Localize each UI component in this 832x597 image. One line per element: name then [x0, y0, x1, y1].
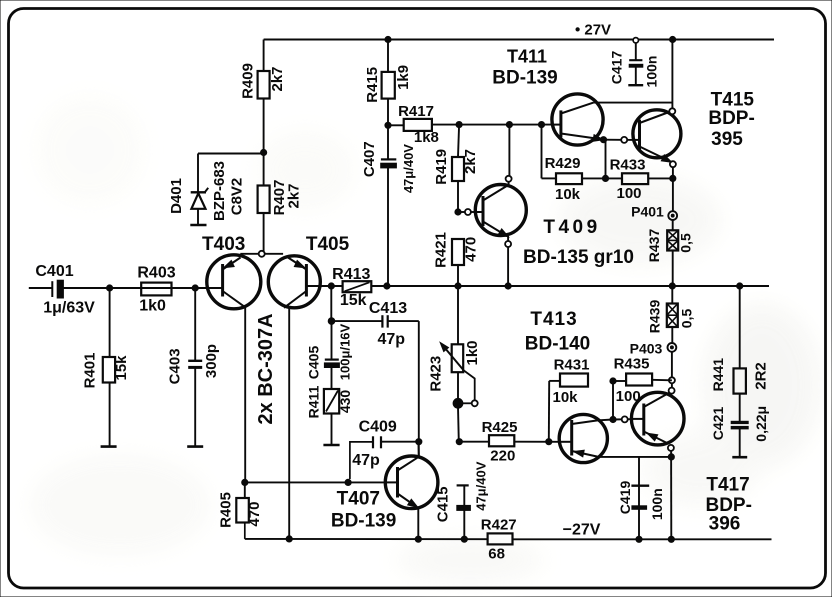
svg-text:C415: C415: [434, 486, 451, 522]
svg-text:T409: T409: [543, 217, 600, 238]
svg-text:P401: P401: [631, 204, 664, 220]
svg-text:R405: R405: [217, 492, 234, 528]
svg-text:47p: 47p: [378, 331, 406, 348]
svg-text:R409: R409: [240, 63, 257, 99]
svg-text:220: 220: [490, 448, 515, 465]
svg-text:T407: T407: [337, 489, 380, 510]
svg-text:0,5: 0,5: [678, 233, 694, 253]
svg-text:−27V: −27V: [563, 522, 601, 539]
svg-text:1μ/63V: 1μ/63V: [43, 300, 95, 317]
svg-text:T417: T417: [706, 475, 749, 496]
svg-text:300p: 300p: [203, 344, 220, 378]
svg-text:T413: T413: [530, 309, 577, 330]
svg-text:C401: C401: [35, 263, 73, 280]
svg-text:D401: D401: [168, 178, 185, 214]
svg-text:2x BC-307A: 2x BC-307A: [255, 313, 277, 424]
svg-text:C405: C405: [306, 346, 322, 380]
svg-text:R415: R415: [364, 67, 381, 103]
svg-text:R411: R411: [306, 385, 322, 418]
svg-text:R403: R403: [137, 265, 175, 282]
svg-text:0,5: 0,5: [678, 309, 694, 329]
svg-text:100n: 100n: [644, 56, 660, 88]
svg-text:1k9: 1k9: [395, 65, 412, 90]
svg-text:1k0: 1k0: [139, 298, 166, 315]
svg-text:R425: R425: [482, 419, 518, 436]
svg-text:R429: R429: [545, 155, 581, 172]
svg-text:R423: R423: [427, 356, 444, 392]
svg-text:C8V2: C8V2: [228, 178, 245, 216]
svg-text:T403: T403: [202, 234, 245, 255]
svg-text:2k7: 2k7: [269, 66, 286, 91]
svg-text:2k7: 2k7: [462, 149, 479, 174]
svg-text:2k7: 2k7: [286, 183, 303, 208]
svg-text:R441: R441: [710, 358, 726, 392]
svg-text:1k0: 1k0: [464, 340, 481, 365]
svg-text:C421: C421: [710, 407, 726, 441]
svg-text:15k: 15k: [340, 292, 367, 309]
svg-text:47μ/40V: 47μ/40V: [474, 461, 489, 510]
svg-text:R433: R433: [610, 157, 646, 174]
svg-text:C403: C403: [167, 348, 184, 384]
svg-text:R419: R419: [433, 149, 450, 185]
svg-text:R431: R431: [554, 357, 590, 374]
svg-text:47p: 47p: [352, 452, 380, 469]
svg-text:BD-140: BD-140: [525, 334, 590, 355]
svg-text:R439: R439: [647, 300, 663, 334]
svg-text:C419: C419: [617, 481, 633, 515]
svg-text:395: 395: [711, 129, 743, 150]
svg-text:R427: R427: [481, 517, 517, 534]
svg-text:C413: C413: [369, 300, 407, 317]
svg-text:470: 470: [246, 502, 263, 527]
svg-text:2R2: 2R2: [753, 362, 770, 390]
svg-text:BDP-: BDP-: [708, 108, 754, 129]
svg-text:T405: T405: [306, 234, 350, 255]
svg-text:0,22μ: 0,22μ: [753, 406, 769, 442]
svg-text:100n: 100n: [649, 488, 665, 520]
svg-text:R435: R435: [614, 356, 650, 373]
svg-text:R421: R421: [433, 232, 450, 268]
svg-text:BZP-683: BZP-683: [211, 161, 228, 221]
svg-text:P403: P403: [630, 341, 663, 357]
svg-text:BD-139: BD-139: [331, 511, 396, 532]
svg-text:R417: R417: [398, 103, 434, 120]
svg-text:100: 100: [616, 185, 641, 202]
svg-text:T411: T411: [507, 47, 547, 67]
svg-text:100μ/16V: 100μ/16V: [338, 323, 353, 380]
svg-text:R401: R401: [82, 353, 99, 389]
svg-text:C409: C409: [359, 419, 397, 436]
svg-text:15k: 15k: [113, 355, 130, 381]
svg-text:10k: 10k: [552, 389, 578, 406]
svg-text:10k: 10k: [555, 186, 581, 203]
svg-text:• 27V: • 27V: [575, 22, 611, 39]
svg-text:C407: C407: [361, 141, 378, 177]
svg-text:396: 396: [709, 514, 741, 535]
svg-text:1k8: 1k8: [414, 129, 439, 146]
svg-text:68: 68: [488, 546, 505, 563]
svg-text:R413: R413: [332, 266, 370, 283]
svg-text:430: 430: [337, 390, 353, 414]
svg-text:R437: R437: [646, 229, 662, 263]
svg-text:BD-139: BD-139: [492, 68, 557, 89]
svg-text:C417: C417: [609, 51, 625, 85]
svg-text:BD-135 gr10: BD-135 gr10: [523, 247, 634, 268]
svg-text:470: 470: [462, 237, 479, 262]
svg-text:47μ/40V: 47μ/40V: [401, 144, 416, 193]
